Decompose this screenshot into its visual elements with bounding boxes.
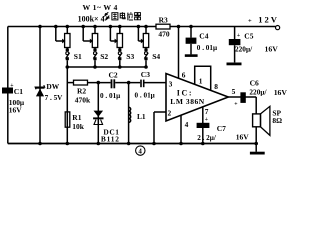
svg-text:C6: C6: [250, 79, 259, 88]
svg-text:4: 4: [138, 148, 142, 156]
svg-text:0 . 01μ: 0 . 01μ: [135, 92, 155, 100]
svg-text:C2: C2: [109, 70, 118, 79]
svg-text:0 . 01μ: 0 . 01μ: [197, 44, 217, 52]
svg-text:7 . 5V: 7 . 5V: [45, 94, 64, 102]
svg-text:+: +: [248, 17, 252, 24]
svg-text:3: 3: [169, 79, 173, 88]
svg-text:16V: 16V: [265, 45, 279, 54]
svg-text:8Ω: 8Ω: [272, 116, 282, 125]
svg-text:1: 1: [199, 77, 203, 86]
svg-text:0 . 01μ: 0 . 01μ: [100, 92, 120, 100]
svg-text:LM 386N: LM 386N: [170, 97, 205, 106]
svg-text:W 1~ W 4: W 1~ W 4: [83, 3, 118, 12]
svg-text:C1: C1: [14, 87, 23, 96]
svg-text:C3: C3: [141, 70, 150, 79]
svg-text:+: +: [237, 33, 240, 39]
svg-text:S4: S4: [152, 52, 160, 61]
svg-text:+: +: [205, 117, 208, 123]
svg-text:L1: L1: [137, 112, 146, 121]
svg-text:470: 470: [158, 29, 170, 38]
svg-text:16V: 16V: [274, 88, 288, 97]
svg-text:12V: 12V: [258, 15, 279, 25]
svg-text:+: +: [234, 101, 237, 107]
svg-text:C4: C4: [199, 32, 208, 41]
svg-text:16V: 16V: [236, 133, 250, 142]
svg-text:R2: R2: [77, 86, 86, 95]
svg-text:B112: B112: [101, 134, 120, 143]
svg-text:S2: S2: [100, 52, 108, 61]
svg-text:6: 6: [182, 71, 186, 80]
svg-text:C7: C7: [217, 124, 226, 133]
svg-text:R3: R3: [159, 15, 168, 24]
svg-text:100k× 4: 100k× 4: [78, 15, 105, 24]
svg-text:220μ/: 220μ/: [249, 88, 267, 97]
svg-text:7: 7: [205, 107, 209, 116]
svg-text:4: 4: [185, 120, 189, 129]
svg-text:S3: S3: [126, 52, 134, 61]
svg-text:5: 5: [232, 87, 236, 96]
svg-text:2 . 2μ/: 2 . 2μ/: [197, 134, 217, 142]
svg-text:R1: R1: [72, 113, 81, 122]
svg-text:8: 8: [214, 82, 218, 91]
svg-text:2: 2: [168, 108, 172, 117]
svg-text:C5: C5: [244, 32, 253, 41]
svg-text:S1: S1: [74, 52, 82, 61]
svg-text:10k: 10k: [72, 122, 85, 131]
svg-text:470k: 470k: [75, 96, 91, 105]
svg-text:IC:: IC:: [177, 88, 193, 97]
svg-text:16V: 16V: [9, 106, 22, 115]
svg-text:DW: DW: [46, 82, 59, 91]
svg-text:220μ/: 220μ/: [235, 45, 253, 54]
